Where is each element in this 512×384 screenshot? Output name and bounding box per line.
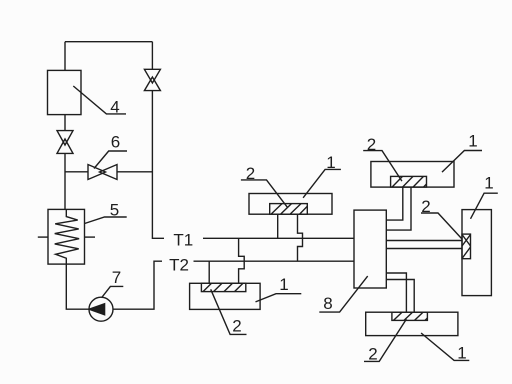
svg-text:2: 2 (368, 345, 377, 364)
heater 2 of top-right mold (391, 176, 427, 187)
label 4 leader (73, 86, 126, 114)
svg-text:7: 7 (112, 268, 121, 287)
wire bypass left (65, 171, 88, 173)
label 5 leader (85, 217, 127, 224)
svg-text:1: 1 (279, 275, 288, 294)
mold 1 top-right (371, 162, 454, 188)
heat exchanger left stub (38, 236, 48, 238)
valve below tank (57, 131, 73, 154)
pipe manifold to right mold lower (386, 248, 462, 250)
label 2 leader (bottom-left mold) (211, 289, 247, 334)
pump 7 (89, 297, 113, 321)
wire top-center mold to T2 with jog over T1 (298, 214, 303, 261)
heater 2 of top-center mold (270, 204, 308, 215)
label 2 leader (bottom-right mold) (364, 319, 406, 361)
svg-text:2: 2 (421, 197, 430, 216)
svg-text:T2: T2 (169, 256, 189, 275)
wire top-right mold port A to manifold (386, 187, 403, 220)
wire T2 bus (194, 260, 355, 262)
label 1 leader (top-center mold) (303, 169, 341, 197)
label 7 leader (102, 286, 124, 297)
wire top horizontal (65, 41, 152, 43)
mold 1 top-center (249, 194, 332, 215)
svg-text:1: 1 (468, 132, 477, 151)
wire pump to T2 (113, 261, 162, 309)
tank 4 (48, 70, 82, 114)
label 6 leader (94, 151, 127, 169)
heat exchanger coil (55, 209, 79, 264)
svg-text:5: 5 (110, 201, 119, 220)
wire bottom-left mold to T1 with jog over T2 (239, 238, 245, 283)
pipe manifold to right mold upper (386, 240, 462, 242)
wire right vertical down to T1 (152, 91, 164, 239)
heat exchanger right stub (85, 236, 96, 238)
svg-text:8: 8 (323, 294, 332, 313)
wire top-left vertical (64, 42, 66, 71)
label 2 leader (top-right mold) (363, 151, 402, 182)
wire top-right mold port B to manifold (386, 187, 411, 230)
valve top-right (144, 69, 160, 90)
mold 1 bottom-right (366, 312, 458, 335)
label 8 leader (319, 276, 367, 312)
wire heat exchanger to pump (66, 264, 89, 309)
svg-text:4: 4 (110, 98, 119, 117)
heat exchanger 5 (48, 209, 85, 264)
label 1 leader (right mold) (471, 193, 498, 219)
mold 1 bottom-left (190, 283, 261, 309)
wire valve to heat exchanger (64, 153, 66, 209)
wire top-right vertical (151, 42, 153, 70)
svg-text:1: 1 (484, 174, 493, 193)
label 2 leader (right mold) (421, 213, 462, 239)
heater 2 of bottom-right mold (392, 312, 428, 320)
wire bottom-right mold port B to manifold (386, 280, 414, 313)
mold 1 right (462, 210, 491, 296)
label 2 leader (top-center mold) (241, 180, 287, 207)
svg-text:T1: T1 (173, 230, 193, 249)
svg-text:2: 2 (232, 317, 241, 336)
manifold 8 (354, 210, 386, 288)
bypass valve 6 (88, 165, 117, 180)
svg-text:1: 1 (457, 343, 466, 362)
svg-text:6: 6 (111, 133, 120, 152)
wire tank to valve (64, 115, 66, 131)
wire bottom-right mold port A to manifold (386, 273, 406, 312)
heater 2 of right mold (462, 234, 471, 259)
wire bypass right (117, 171, 152, 173)
label 1 leader (bottom-right mold) (421, 333, 469, 360)
wire T1 bus (203, 237, 354, 239)
wire top-center mold to T1 (277, 214, 279, 238)
heater 2 of bottom-left mold (201, 283, 245, 291)
label 1 leader (bottom-left mold) (256, 294, 302, 302)
wire bottom-left mold to T2 (208, 261, 210, 283)
svg-text:2: 2 (367, 135, 376, 154)
svg-text:1: 1 (326, 153, 335, 172)
label 1 leader (top-right mold) (442, 151, 482, 173)
svg-text:2: 2 (246, 164, 255, 183)
